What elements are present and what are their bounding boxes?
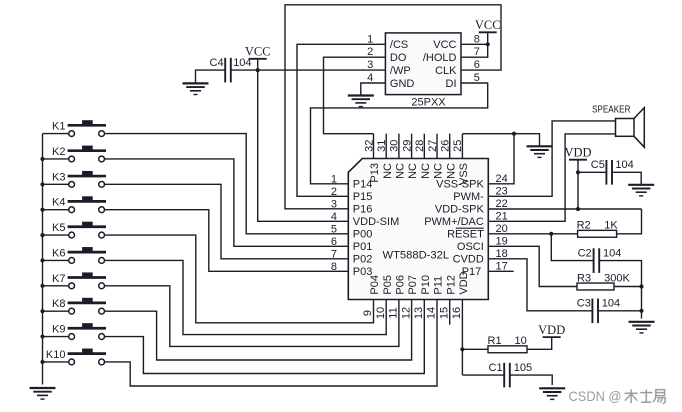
pin number 22 bbox=[496, 198, 508, 210]
junction rail-K7 bbox=[40, 284, 44, 288]
svg-text:14: 14 bbox=[426, 307, 438, 319]
power VDD (C5) bbox=[564, 146, 591, 160]
svg-text:K4: K4 bbox=[52, 197, 65, 209]
pin number 32 bbox=[363, 140, 375, 152]
wire DO to P13 bbox=[324, 57, 386, 134]
svg-text:9: 9 bbox=[362, 310, 374, 316]
pin number 13 bbox=[413, 307, 425, 319]
label pin11 P06 bbox=[395, 275, 407, 295]
wire pin20 RESET to R2 bbox=[488, 233, 577, 235]
svg-text:1: 1 bbox=[367, 33, 373, 45]
label pin1 P14 bbox=[353, 179, 373, 191]
pin number 18 bbox=[496, 248, 508, 260]
svg-text:DO: DO bbox=[390, 52, 407, 64]
junction pin16-R1-C1 bbox=[460, 347, 464, 351]
pin number 12 bbox=[400, 307, 412, 319]
svg-text:22: 22 bbox=[496, 198, 508, 210]
wire R1 to VDD bbox=[527, 337, 552, 349]
svg-text:12: 12 bbox=[400, 307, 412, 319]
pushbutton K7 bbox=[68, 272, 106, 288]
svg-text:10: 10 bbox=[515, 335, 527, 347]
svg-text:16: 16 bbox=[451, 307, 463, 319]
wire DI to P14 bbox=[311, 83, 488, 184]
pin number 3 bbox=[331, 199, 337, 211]
pin 15 stub bbox=[449, 300, 451, 325]
pin number 27 bbox=[427, 140, 439, 152]
pushbutton K1 bbox=[68, 120, 106, 136]
ground (C5) bbox=[628, 185, 654, 196]
pin number 6 bbox=[331, 236, 337, 248]
ground (C1) bbox=[539, 388, 565, 399]
svg-text:NC: NC bbox=[445, 163, 457, 179]
svg-text:104: 104 bbox=[615, 159, 633, 171]
label SPEAKER bbox=[592, 104, 631, 116]
wire pin4 GND to ground bbox=[361, 83, 386, 96]
wire K1 to pin 5 bbox=[105, 134, 349, 234]
svg-text:C5: C5 bbox=[591, 159, 605, 171]
svg-text:3: 3 bbox=[367, 59, 373, 71]
svg-text:25: 25 bbox=[452, 140, 464, 152]
label pin21 PWM+/DAC bbox=[424, 216, 484, 228]
svg-text:P13: P13 bbox=[369, 163, 381, 183]
svg-text:NC: NC bbox=[395, 163, 407, 179]
junction rail-K9 bbox=[40, 334, 44, 338]
svg-text:/CS: /CS bbox=[390, 39, 408, 51]
ground (right rail) bbox=[629, 322, 655, 333]
svg-text:GND: GND bbox=[390, 78, 415, 90]
svg-text:K10: K10 bbox=[46, 349, 66, 361]
wire C2 to ground rail bbox=[599, 261, 641, 319]
wire pin16 to C1 bbox=[462, 374, 504, 376]
label R3 bbox=[577, 272, 591, 284]
wire pin8 VCC bbox=[461, 43, 488, 45]
pushbutton K6 bbox=[68, 247, 106, 263]
wire C3 to ground rail bbox=[598, 310, 642, 312]
svg-text:4: 4 bbox=[367, 72, 373, 84]
power VCC (25PXX) bbox=[475, 18, 501, 32]
power VDD (R1) bbox=[538, 323, 565, 337]
label pin7 P02 bbox=[353, 254, 373, 266]
wire pin7 /HOLD to VCC bbox=[461, 44, 488, 57]
value 105 bbox=[514, 362, 532, 374]
wire rail to K4 bbox=[43, 209, 69, 211]
pin number 17 bbox=[496, 261, 508, 273]
label 25PXX pin8 VCC bbox=[433, 39, 456, 51]
pushbutton K10 bbox=[68, 349, 106, 365]
svg-text:300K: 300K bbox=[604, 272, 630, 284]
ic 25PXX body bbox=[385, 33, 461, 95]
junction rail-K8 bbox=[40, 309, 44, 313]
pin stub 26 (top) bbox=[449, 134, 451, 159]
label pin15 P12 bbox=[445, 275, 457, 295]
junction C3-rail bbox=[639, 309, 643, 313]
svg-text:CLK: CLK bbox=[435, 65, 457, 77]
capacitor C5 bbox=[606, 160, 612, 185]
pin number 30 bbox=[389, 140, 401, 152]
value 300K bbox=[604, 272, 630, 284]
svg-text:R2: R2 bbox=[577, 220, 591, 232]
label pin14 P11 bbox=[433, 276, 445, 295]
junction pin8-VCC bbox=[486, 42, 490, 46]
pin number 19 bbox=[496, 236, 508, 248]
svg-text:P10: P10 bbox=[420, 275, 432, 295]
svg-text:C2: C2 bbox=[578, 247, 592, 259]
label pin8 P03 bbox=[353, 266, 373, 278]
svg-text:P00: P00 bbox=[353, 229, 373, 241]
wire rail to K3 bbox=[43, 183, 69, 185]
wire C1 to ground bbox=[510, 375, 552, 385]
watermark CSDN bbox=[569, 389, 666, 404]
wire VCC node to pin4 VDD-SIM bbox=[258, 70, 349, 221]
svg-text:7: 7 bbox=[474, 46, 480, 58]
label 25PXX pin4 GND bbox=[390, 78, 415, 90]
svg-text:27: 27 bbox=[427, 140, 439, 152]
pin number 8 bbox=[331, 261, 337, 273]
junction VSS bus bbox=[512, 132, 516, 136]
svg-text:P12: P12 bbox=[445, 275, 457, 295]
wire ground to C4 bbox=[196, 70, 226, 83]
pin stub 27 (top) bbox=[436, 134, 438, 159]
ground (25PXX GND) bbox=[348, 96, 374, 107]
svg-text:VDD: VDD bbox=[564, 146, 591, 160]
label C3 bbox=[577, 298, 591, 310]
svg-text:7: 7 bbox=[331, 249, 337, 261]
wire K6 to pin 10 bbox=[105, 260, 387, 334]
wire pin22 VDD-SPK to VDD and R2 bbox=[488, 208, 641, 210]
svg-text:P05: P05 bbox=[382, 275, 394, 295]
svg-text:32: 32 bbox=[363, 140, 375, 152]
wire rail to K10 bbox=[43, 361, 69, 363]
svg-text:10: 10 bbox=[375, 307, 387, 319]
label pin6 P01 bbox=[353, 241, 373, 253]
label pin25 VSS bbox=[458, 163, 470, 185]
svg-text:2: 2 bbox=[331, 186, 337, 198]
svg-text:31: 31 bbox=[376, 140, 388, 152]
svg-text:11: 11 bbox=[388, 307, 400, 318]
svg-text:K8: K8 bbox=[52, 298, 65, 310]
label pin29 NC bbox=[407, 163, 419, 179]
svg-text:CVDD: CVDD bbox=[453, 254, 484, 266]
ic U1 WT588D-32L body bbox=[348, 159, 488, 300]
svg-text:P15: P15 bbox=[353, 191, 373, 203]
wire CLK to P16 top loop bbox=[285, 5, 501, 209]
label pin13 P10 bbox=[420, 275, 432, 295]
speaker LS1 bbox=[616, 108, 645, 148]
svg-text:/WP: /WP bbox=[390, 65, 411, 77]
wire VDD to C5 bbox=[578, 171, 606, 173]
svg-text:P07: P07 bbox=[407, 275, 419, 295]
svg-text:25PXX: 25PXX bbox=[411, 97, 446, 109]
wire pin16 to R1 bbox=[462, 348, 488, 350]
label pin24 VSS-SPK bbox=[436, 179, 484, 191]
label K3 bbox=[52, 171, 65, 183]
pin stub 28 (top) bbox=[423, 134, 425, 159]
svg-text:CSDN @: CSDN @ bbox=[569, 389, 622, 404]
label pin17 P17 bbox=[462, 266, 482, 278]
wire VCC symbol to pin8 bbox=[487, 32, 489, 44]
pin stub 30 (top) bbox=[398, 134, 400, 159]
label WT588D-32L bbox=[383, 249, 450, 261]
label pin32 P13 bbox=[369, 163, 381, 183]
capacitor C3 bbox=[592, 299, 598, 324]
pin number 23 bbox=[496, 186, 508, 198]
label K7 bbox=[52, 273, 65, 285]
pin number 1 (25PXX) bbox=[367, 33, 373, 45]
svg-text:R1: R1 bbox=[488, 335, 502, 347]
value 10 bbox=[515, 335, 527, 347]
wire pin16 VDD down bbox=[461, 300, 463, 376]
svg-text:8: 8 bbox=[331, 261, 337, 273]
capacitor C1 bbox=[504, 363, 510, 388]
wire R3 to ground rail bbox=[614, 286, 642, 288]
svg-text:30: 30 bbox=[389, 140, 401, 152]
wire pin18 CVDD to C3 bbox=[488, 259, 592, 311]
label K1 bbox=[52, 121, 65, 133]
junction rail-K2 bbox=[40, 157, 44, 161]
svg-text:NC: NC bbox=[433, 163, 445, 179]
ground (C4) bbox=[183, 83, 209, 94]
pin number 7 (25PXX) bbox=[474, 46, 480, 58]
pin number 5 bbox=[331, 224, 337, 236]
svg-text:OSCI: OSCI bbox=[457, 241, 484, 253]
pin number 26 bbox=[440, 140, 452, 152]
svg-text:K6: K6 bbox=[52, 247, 65, 259]
svg-text:PWM+/DAC: PWM+/DAC bbox=[424, 216, 484, 228]
pin number 15 bbox=[438, 307, 450, 319]
svg-text:1: 1 bbox=[331, 174, 337, 186]
label pin18 CVDD bbox=[453, 254, 484, 266]
label C2 bbox=[578, 247, 592, 259]
svg-text:K2: K2 bbox=[52, 146, 65, 158]
label 25PXX pin2 DO bbox=[390, 52, 407, 64]
label 25PXX pin5 DI bbox=[446, 78, 457, 90]
wire K5 to pin 9 bbox=[105, 235, 374, 323]
label pin4 VDD-SIM bbox=[353, 216, 399, 228]
resistor R1 bbox=[488, 346, 527, 353]
svg-text:4: 4 bbox=[331, 211, 337, 223]
svg-text:NC: NC bbox=[382, 163, 394, 179]
label pin12 P07 bbox=[407, 275, 419, 295]
label pin30 NC bbox=[395, 163, 407, 179]
svg-text:RESET: RESET bbox=[447, 229, 484, 241]
svg-text:2: 2 bbox=[367, 46, 373, 58]
label R2 bbox=[577, 220, 591, 232]
svg-text:P16: P16 bbox=[353, 204, 373, 216]
wire rail to K2 bbox=[43, 158, 69, 160]
label R1 bbox=[488, 335, 502, 347]
value 104 bbox=[602, 298, 620, 310]
pin number 8 (25PXX) bbox=[474, 33, 480, 45]
svg-text:26: 26 bbox=[440, 140, 452, 152]
label pin22 VDD-SPK bbox=[435, 204, 485, 216]
pin number 2 (25PXX) bbox=[367, 46, 373, 58]
wire K8 to pin 12 bbox=[105, 300, 412, 361]
wire K7 to pin 11 bbox=[105, 286, 399, 347]
pin stub 25 (top) bbox=[461, 134, 463, 159]
label pin23 PWM- bbox=[453, 191, 484, 203]
svg-text:C1: C1 bbox=[489, 362, 503, 374]
capacitor C4 bbox=[225, 58, 231, 83]
value 104 bbox=[233, 57, 251, 69]
wire K-button ground rail bbox=[42, 134, 44, 385]
pin 17 stub bbox=[488, 270, 513, 272]
wire K2 to pin 6 bbox=[105, 159, 349, 246]
svg-text:K3: K3 bbox=[52, 171, 65, 183]
svg-text:VDD-SIM: VDD-SIM bbox=[353, 216, 399, 228]
wire rail to K5 bbox=[43, 234, 69, 236]
svg-text:DI: DI bbox=[446, 78, 457, 90]
svg-text:C4: C4 bbox=[210, 57, 224, 69]
wire rail to K9 bbox=[43, 336, 69, 338]
resistor R2 bbox=[578, 230, 617, 237]
pin number 7 bbox=[331, 249, 337, 261]
pin number 5 (25PXX) bbox=[474, 72, 480, 84]
junction RESET-C2 bbox=[549, 232, 553, 236]
pin number 9 bbox=[362, 310, 374, 316]
pushbutton K4 bbox=[68, 196, 106, 212]
svg-text:P06: P06 bbox=[395, 275, 407, 295]
svg-text:5: 5 bbox=[474, 72, 480, 84]
wire K3 to pin 7 bbox=[105, 184, 349, 258]
pushbutton K5 bbox=[68, 222, 106, 238]
pin number 16 bbox=[451, 307, 463, 319]
pin number 11 bbox=[388, 307, 400, 318]
wire R2 top loop bbox=[617, 209, 642, 234]
label pin27 NC bbox=[433, 163, 445, 179]
pin number 4 bbox=[331, 211, 337, 223]
wire VCC node up bbox=[257, 59, 259, 70]
label 25PXX pin3 /WP bbox=[390, 65, 411, 77]
wire C5 to ground bbox=[612, 172, 641, 185]
junction VDD-C5 bbox=[576, 170, 580, 174]
junction rail-K5 bbox=[40, 233, 44, 237]
svg-text:104: 104 bbox=[602, 298, 620, 310]
wire K10 to pin 14 bbox=[105, 300, 437, 387]
wire VSS pin25 bus to ground bbox=[462, 134, 539, 147]
wire rail to K1 bbox=[43, 133, 69, 135]
wire VSS bus to pin24 VSS-SPK bbox=[488, 134, 514, 184]
svg-text:1K: 1K bbox=[604, 220, 618, 232]
svg-text:29: 29 bbox=[401, 140, 413, 152]
pin stub 29 (top) bbox=[411, 134, 413, 159]
svg-text:P04: P04 bbox=[369, 275, 381, 295]
label C1 bbox=[489, 362, 503, 374]
label pin28 NC bbox=[420, 163, 432, 179]
wire K9 to pin 13 bbox=[105, 300, 425, 374]
pin number 25 bbox=[452, 140, 464, 152]
label C5 bbox=[591, 159, 605, 171]
wire C4 to VCC node to /WP pin3 bbox=[231, 69, 386, 71]
label pin2 P15 bbox=[353, 191, 373, 203]
pin number 2 bbox=[331, 186, 337, 198]
svg-text:104: 104 bbox=[603, 247, 621, 259]
svg-text:SPEAKER: SPEAKER bbox=[592, 104, 631, 116]
pin stub 31 (top) bbox=[385, 134, 387, 159]
wire VDD down to pin22 row bbox=[577, 160, 579, 209]
svg-text:PWM-: PWM- bbox=[453, 191, 484, 203]
pin stub 32 (top) bbox=[373, 134, 375, 159]
value 104 bbox=[615, 159, 633, 171]
svg-text:K5: K5 bbox=[52, 222, 65, 234]
svg-text:P02: P02 bbox=[353, 254, 373, 266]
pin number 1 bbox=[331, 174, 337, 186]
label K8 bbox=[52, 298, 65, 310]
pushbutton K8 bbox=[68, 298, 106, 314]
pin number 28 bbox=[414, 140, 426, 152]
pin number 21 bbox=[496, 211, 508, 223]
pushbutton K3 bbox=[68, 171, 106, 187]
label pin5 P00 bbox=[353, 229, 373, 241]
junction R3-rail bbox=[639, 284, 643, 288]
svg-text:P01: P01 bbox=[353, 241, 373, 253]
svg-text:3: 3 bbox=[331, 199, 337, 211]
svg-text:13: 13 bbox=[413, 307, 425, 319]
pushbutton K9 bbox=[68, 323, 106, 339]
svg-text:NC: NC bbox=[420, 163, 432, 179]
label pin10 P05 bbox=[382, 275, 394, 295]
label K2 bbox=[52, 146, 65, 158]
svg-text:6: 6 bbox=[474, 59, 480, 71]
label K5 bbox=[52, 222, 65, 234]
label pin19 OSCI bbox=[457, 241, 484, 253]
label pin20 RESET bbox=[447, 228, 484, 241]
pin number 29 bbox=[401, 140, 413, 152]
label K9 bbox=[52, 324, 65, 336]
svg-text:/HOLD: /HOLD bbox=[423, 52, 457, 64]
label K6 bbox=[52, 247, 65, 259]
junction rail-K3 bbox=[40, 182, 44, 186]
svg-text:8: 8 bbox=[474, 33, 480, 45]
svg-text:NC: NC bbox=[407, 163, 419, 179]
junction VCC node bbox=[256, 68, 260, 72]
ground (button rail) bbox=[30, 388, 56, 399]
resistor R3 bbox=[577, 283, 614, 290]
pin number 24 bbox=[496, 173, 508, 185]
pin number 20 bbox=[496, 223, 508, 235]
wire rail to K7 bbox=[43, 285, 69, 287]
junction pin22-VDD bbox=[576, 207, 580, 211]
label pin26 NC bbox=[445, 163, 457, 179]
svg-text:VDD: VDD bbox=[538, 323, 565, 337]
junction rail-K10 bbox=[40, 360, 44, 364]
label pin31 NC bbox=[382, 163, 394, 179]
wire /CS to P15 bbox=[297, 44, 385, 196]
capacitor C2 bbox=[594, 248, 600, 273]
wire RESET to C2 bbox=[551, 234, 593, 261]
power VCC (C4) bbox=[245, 45, 271, 59]
wire pin19 OSCI to R3 bbox=[488, 246, 577, 286]
junction rail-K4 bbox=[40, 208, 44, 212]
svg-text:VDD-SPK: VDD-SPK bbox=[435, 204, 485, 216]
pin number 31 bbox=[376, 140, 388, 152]
wire speaker+ to PWM- pin23 bbox=[488, 121, 615, 196]
wire rail to K6 bbox=[43, 259, 69, 261]
svg-text:105: 105 bbox=[514, 362, 532, 374]
wire K4 to pin 8 bbox=[105, 210, 349, 272]
svg-text:C3: C3 bbox=[577, 298, 591, 310]
svg-text:28: 28 bbox=[414, 140, 426, 152]
wire speaker- to PWM+/DAC pin21 bbox=[488, 134, 615, 221]
label 25PXX pin1 /CS bbox=[390, 39, 408, 51]
ground (VSS) bbox=[527, 146, 553, 157]
svg-text:5: 5 bbox=[331, 224, 337, 236]
label pin9 P04 bbox=[369, 275, 381, 295]
label K4 bbox=[52, 197, 65, 209]
junction rail-K6 bbox=[40, 258, 44, 262]
svg-text:P11: P11 bbox=[433, 276, 445, 295]
label pin16 VDD bbox=[458, 271, 470, 294]
pin number 10 bbox=[375, 307, 387, 319]
